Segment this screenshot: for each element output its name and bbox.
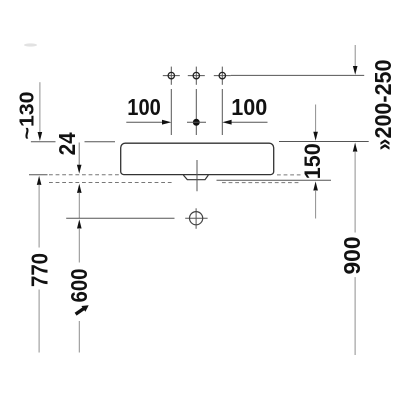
worktop surface solid tick left	[29, 174, 48, 176]
faucet hole circle 3	[214, 67, 231, 85]
faucet hole circle 1	[163, 67, 180, 85]
svg-text:100: 100	[231, 94, 267, 120]
svg-text:900: 900	[339, 237, 365, 275]
worktop underside dashed line right	[222, 182, 299, 184]
svg-text:»200-250: »200-250	[370, 60, 396, 151]
worktop underside dashed line left	[49, 182, 174, 184]
drain reference horizontal line	[66, 217, 174, 219]
dimension 24: down arrow to worktop	[54, 132, 82, 173]
faucet centre line extension to right	[231, 74, 364, 76]
svg-text:24: 24	[54, 132, 80, 155]
svg-text:150: 150	[300, 143, 325, 179]
worktop surface dashed line right	[277, 174, 301, 176]
dimension 150: lower up arrow with line to drain level	[313, 181, 318, 218]
stem below circle 2	[195, 89, 197, 135]
smudge artifact top-left	[24, 43, 37, 46]
left extension tick at basin top level	[31, 141, 56, 143]
dimension 200-250 vertical line with down arrow	[353, 45, 396, 151]
drain outlet circle	[185, 208, 207, 229]
svg-text:100: 100	[127, 94, 161, 120]
dimension 100 left: line and arrow	[126, 94, 171, 125]
svg-text:770: 770	[27, 253, 53, 287]
stem below circle 1	[170, 89, 172, 135]
dimension 150: upper line with down arrow	[300, 105, 325, 180]
faucet hole circle 2	[188, 67, 205, 85]
basin outline with drain notch	[121, 143, 274, 174]
adjustable height arrow glyph	[76, 305, 89, 314]
solid reference line right of notch	[217, 179, 332, 181]
centre dot on tap axis	[187, 119, 206, 126]
dimension 600 upper arrow to worktop underside	[77, 184, 82, 218]
drain notch under basin	[183, 175, 208, 180]
stem below circle 3	[221, 89, 223, 135]
worktop surface dashed line left	[49, 174, 119, 176]
svg-text:600: 600	[66, 269, 92, 303]
dimension 600 lower arrow and broken line with label	[66, 219, 92, 352]
svg-text:~130: ~130	[17, 92, 39, 140]
right extension tick at basin top level	[279, 141, 369, 143]
dimension 900: up arrow and broken line with label	[339, 143, 365, 356]
dimension 100 right: line and arrow	[222, 94, 267, 125]
dimension 770: up arrow and broken line with label	[27, 176, 53, 353]
dimension ~130: line with down arrow	[17, 82, 43, 141]
basin drain centre line	[196, 160, 198, 191]
